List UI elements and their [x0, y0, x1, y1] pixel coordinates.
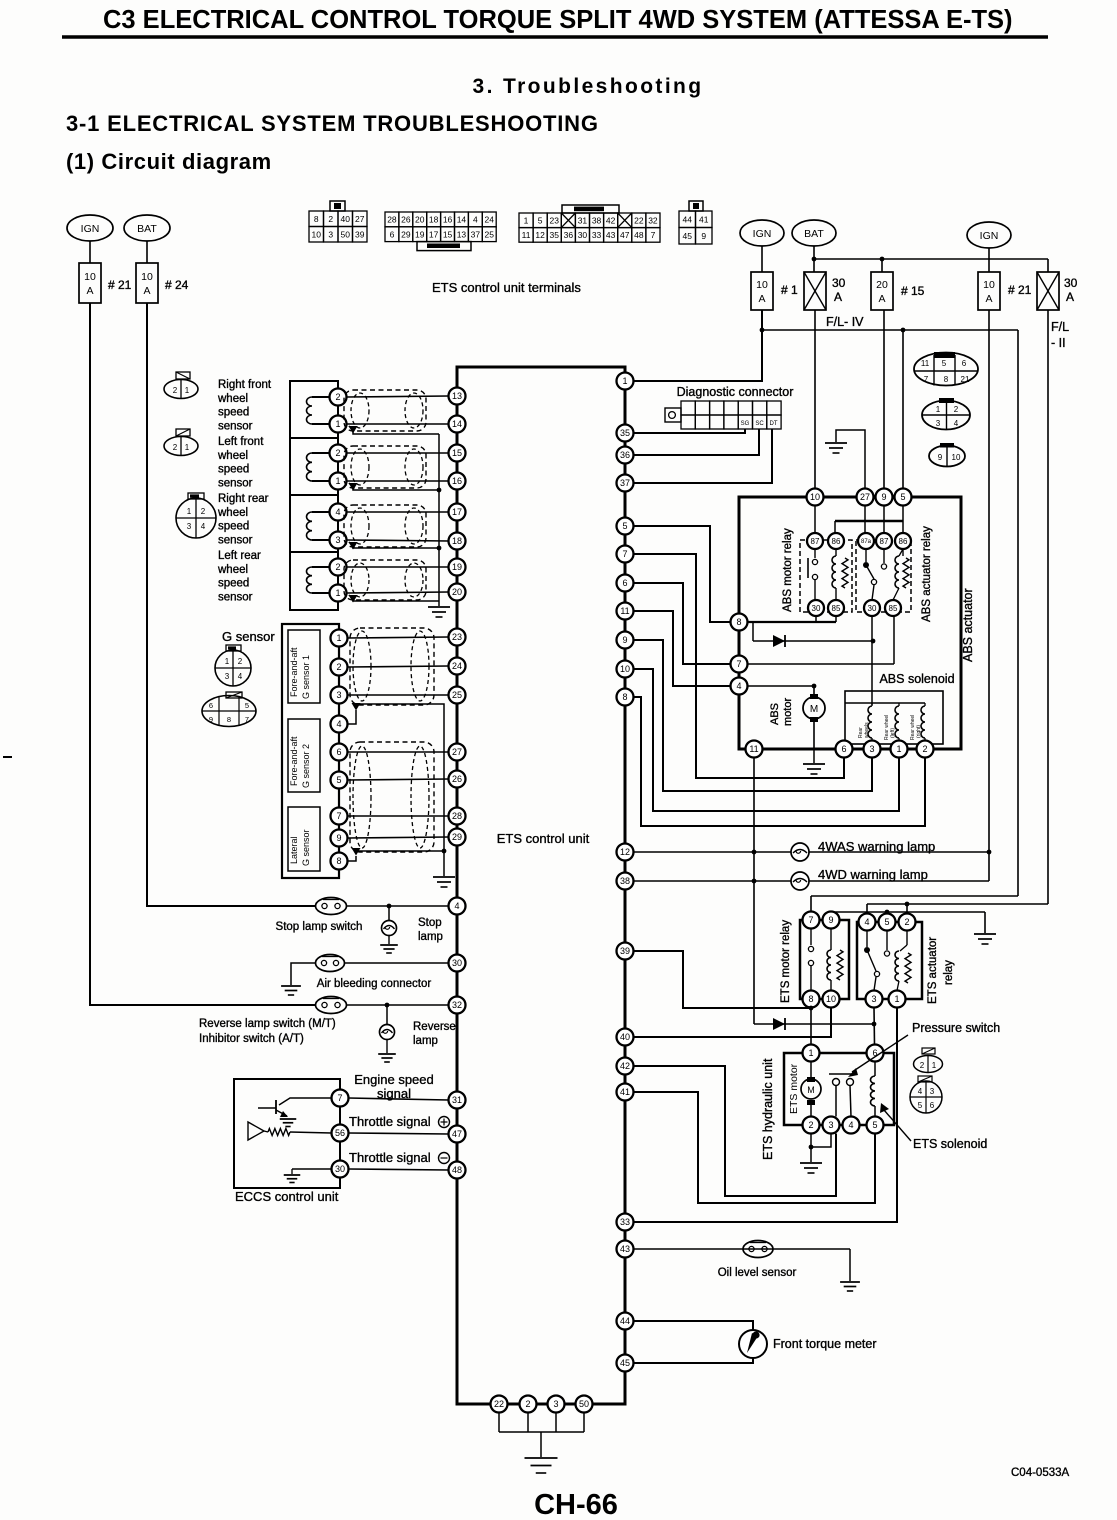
ETS solenoid coil	[874, 1062, 876, 1077]
ABS motor relay coil	[835, 549, 837, 556]
sensor divider 2	[290, 494, 338, 496]
wires ETS bottom terminals to ground bus	[498, 1413, 500, 1433]
svg-text:1: 1	[335, 476, 340, 486]
svg-text:2: 2	[238, 657, 243, 666]
svg-text:86: 86	[832, 537, 841, 546]
G sensor housing box	[282, 624, 339, 878]
wire ETS 10 to ABS solenoid 1	[634, 669, 900, 811]
accessory bus from fuse #1	[762, 329, 1018, 331]
G sensor connector icon 4-pin	[215, 650, 251, 686]
svg-text:C04-0533A: C04-0533A	[1011, 1467, 1070, 1479]
svg-text:Front torque meter: Front torque meter	[773, 1337, 877, 1351]
svg-text:30: 30	[812, 604, 821, 613]
svg-text:Throttle signal: Throttle signal	[349, 1114, 431, 1129]
svg-text:3: 3	[553, 1399, 558, 1409]
svg-text:27: 27	[860, 492, 870, 502]
svg-text:6: 6	[930, 1101, 935, 1110]
wire ETS 5 to ABS 8	[634, 526, 731, 622]
ETS terminal 27	[449, 744, 466, 761]
ABS solenoid coil rear wheel right	[924, 703, 926, 706]
wire fuse #21 down to warning lamps	[988, 310, 990, 881]
svg-text:4: 4	[473, 215, 478, 225]
ETS terminal 16	[449, 473, 466, 490]
ABS motor relay terminals	[807, 533, 823, 549]
wire ETS 38 to 4WD warning lamp	[634, 880, 990, 882]
wire stop lamp switch to ETS 4	[347, 905, 449, 907]
svg-text:# 1: # 1	[781, 283, 798, 297]
svg-text:30: 30	[578, 230, 588, 240]
wire F/L-IV down to ABS actuator terminal 10	[814, 310, 816, 489]
svg-text:6: 6	[336, 747, 341, 757]
ECCS pin 56	[332, 1125, 349, 1142]
ABS solenoid coil rear wheel left	[898, 703, 900, 706]
Fore-and-aft G sensor 1 box	[288, 630, 320, 703]
wire bus down right side to ETS motor relay	[1017, 330, 1019, 896]
svg-text:# 21: # 21	[1008, 283, 1032, 297]
svg-text:3: 3	[930, 1087, 935, 1096]
svg-text:11: 11	[921, 359, 930, 368]
connector icon 2-pin (9-10)	[929, 446, 965, 467]
svg-text:87: 87	[811, 537, 820, 546]
svg-text:12: 12	[620, 847, 630, 857]
pressure switch contacts	[829, 1073, 855, 1075]
wire ECCS 7 to ETS 31	[349, 1098, 449, 1100]
svg-text:37: 37	[471, 229, 481, 239]
wheel speed sensor housings	[290, 381, 338, 610]
svg-text:29: 29	[401, 229, 411, 239]
svg-text:45: 45	[620, 1358, 630, 1368]
svg-text:20: 20	[415, 215, 425, 225]
connector icon 6-pin (11-5-6/7-8-21)	[914, 353, 978, 386]
ETS actuator relay coil	[906, 931, 908, 946]
svg-text:ETS control unit terminals: ETS control unit terminals	[432, 280, 581, 295]
G sensor pins	[331, 630, 348, 647]
ETS terminal 25	[449, 687, 466, 704]
ETS terminal 6	[617, 575, 634, 592]
svg-text:17: 17	[452, 507, 462, 517]
power source BAT (right)	[792, 220, 836, 246]
svg-text:9: 9	[701, 231, 706, 241]
svg-text:speed: speed	[218, 407, 249, 419]
ETS terminal 43	[617, 1241, 634, 1258]
svg-text:39: 39	[620, 946, 630, 956]
svg-text:21: 21	[961, 375, 970, 384]
wire Right rear sensor pin 4 to ETS 17	[347, 511, 449, 513]
svg-text:8: 8	[336, 856, 341, 866]
svg-text:sensor: sensor	[218, 420, 253, 432]
svg-text:Diagnostic connector: Diagnostic connector	[677, 385, 794, 399]
wire BAT to fuse #24	[146, 241, 148, 263]
wire reverse lamp switch to ETS 32	[347, 1004, 449, 1006]
svg-text:40: 40	[620, 1032, 630, 1042]
reverse lamp ground	[386, 1040, 388, 1054]
svg-text:5: 5	[538, 216, 543, 226]
G shield drain tap 2	[352, 848, 361, 856]
power source IGN (right-1)	[740, 220, 784, 246]
ABS motor	[813, 686, 815, 697]
wire air bleeding connector to ground	[291, 963, 316, 985]
svg-text:ECCS control unit: ECCS control unit	[235, 1189, 339, 1204]
sensor divider 3	[290, 551, 338, 553]
ABS motor ground	[813, 749, 815, 763]
svg-text:5: 5	[336, 775, 341, 785]
svg-text:sensor: sensor	[218, 534, 253, 546]
svg-text:11: 11	[522, 230, 531, 240]
ETS terminal 44	[617, 1313, 634, 1330]
svg-text:44: 44	[620, 1316, 630, 1326]
ETS motor relay contact	[810, 929, 812, 946]
Right rear shielded cable	[344, 505, 426, 547]
ETS terminal 42	[617, 1058, 634, 1075]
ETS terminal 17	[449, 504, 466, 521]
wire ETS actuator relay 3 to hydraulic unit 6	[873, 1008, 876, 1045]
svg-text:11: 11	[620, 606, 629, 616]
power source IGN (right-2)	[967, 222, 1011, 248]
svg-text:4WAS warning lamp: 4WAS warning lamp	[818, 839, 935, 854]
svg-text:7: 7	[651, 230, 656, 240]
svg-text:- II: - II	[1051, 336, 1066, 350]
svg-text:C3 ELECTRICAL CONTROL TORQUE S: C3 ELECTRICAL CONTROL TORQUE SPLIT 4WD S…	[103, 6, 1013, 34]
svg-text:19: 19	[452, 562, 462, 572]
svg-text:29: 29	[452, 832, 462, 842]
fuse #21 right 10A	[978, 272, 1000, 310]
ETS terminal 7	[617, 546, 634, 563]
svg-text:2: 2	[336, 662, 341, 672]
4WAS warning lamp	[791, 843, 809, 861]
svg-text:5: 5	[884, 917, 889, 927]
svg-text:47: 47	[620, 230, 630, 240]
Left front shielded cable	[344, 446, 426, 488]
wire ABS terminal 8 to relay 30/85	[748, 621, 837, 623]
ETS terminal 30	[449, 955, 466, 972]
ETS terminal 23	[449, 629, 466, 646]
svg-text:Pressure switch: Pressure switch	[912, 1021, 1000, 1035]
ground for wheel sensor shields	[428, 606, 450, 608]
svg-text:43: 43	[620, 1244, 630, 1254]
svg-text:5: 5	[918, 1101, 923, 1110]
wire fuse #21 down to reverse lamp switch row	[90, 303, 316, 1005]
svg-text:36: 36	[620, 450, 630, 460]
wire ETS 6 to ABS 7	[634, 583, 731, 664]
svg-text:7: 7	[336, 811, 341, 821]
ETS terminal 13	[449, 388, 466, 405]
svg-text:2: 2	[920, 1061, 925, 1070]
svg-text:ABS solenoid: ABS solenoid	[879, 672, 954, 686]
G sensor shield ground	[443, 851, 445, 876]
svg-text:41: 41	[699, 214, 709, 224]
ETS terminal 41	[617, 1084, 634, 1101]
Lateral G sensor box	[288, 807, 320, 871]
svg-text:speed: speed	[218, 521, 249, 533]
power source IGN (left)	[67, 215, 113, 241]
wire ETS 45 to torque meter	[634, 1358, 754, 1363]
diode between ABS 8 bus and actuator relay 30	[752, 622, 754, 641]
svg-text:lamp: lamp	[418, 931, 443, 943]
svg-text:ETS motor: ETS motor	[788, 1063, 800, 1114]
svg-text:M: M	[810, 704, 818, 715]
ETS terminal 37	[617, 475, 634, 492]
ETS motor relay coil	[830, 929, 832, 951]
svg-text:27: 27	[452, 747, 462, 757]
ETS terminal 31	[449, 1092, 466, 1109]
svg-text:1: 1	[936, 405, 941, 414]
connector icon left front sensor	[164, 437, 198, 456]
svg-text:26: 26	[401, 215, 411, 225]
svg-text:26: 26	[452, 774, 462, 784]
svg-text:10: 10	[141, 271, 153, 283]
wire Right rear sensor pin 3 to ETS 18	[347, 540, 449, 541]
svg-text:ETS actuator: ETS actuator	[927, 937, 939, 1004]
svg-text:2: 2	[954, 405, 959, 414]
svg-text:6: 6	[841, 744, 846, 754]
svg-text:CH-66: CH-66	[534, 1489, 618, 1520]
svg-text:16: 16	[443, 215, 453, 225]
svg-text:# 15: # 15	[901, 284, 925, 298]
svg-text:4: 4	[864, 917, 869, 927]
svg-text:4: 4	[954, 419, 959, 428]
ETS terminal 39	[617, 943, 634, 960]
svg-text:relay: relay	[943, 960, 955, 985]
svg-text:25: 25	[485, 229, 495, 239]
ETS terminal 48	[449, 1162, 466, 1179]
svg-text:2: 2	[173, 443, 178, 452]
svg-text:wheel: wheel	[217, 564, 248, 576]
svg-text:50: 50	[579, 1399, 589, 1409]
connector icon right front sensor	[164, 380, 198, 399]
ETS hydraulic unit box	[784, 1053, 894, 1125]
ABS actuator relay contact	[865, 549, 867, 562]
svg-text:39: 39	[355, 229, 365, 239]
oil level sensor	[743, 1241, 773, 1258]
ETS terminal 4	[449, 898, 466, 915]
svg-text:speed: speed	[218, 578, 249, 590]
svg-text:19: 19	[415, 229, 425, 239]
svg-text:8: 8	[808, 994, 813, 1004]
svg-text:87: 87	[880, 537, 889, 546]
svg-text:Left rear: Left rear	[218, 550, 261, 562]
wire ETS 44 to torque meter	[634, 1321, 754, 1330]
svg-text:16: 16	[452, 476, 462, 486]
wire ETS 8 to ABS solenoid 2	[634, 697, 926, 826]
wire bus to fuse #15	[881, 259, 883, 272]
svg-text:3: 3	[335, 535, 340, 545]
svg-text:14: 14	[457, 215, 467, 225]
svg-text:45: 45	[683, 231, 693, 241]
Left front shield drain tap	[349, 483, 358, 491]
svg-text:48: 48	[634, 230, 644, 240]
fusible link F/L-II 30A	[1037, 272, 1059, 310]
svg-text:33: 33	[620, 1217, 630, 1227]
stray margin dash	[3, 756, 12, 758]
svg-text:50: 50	[341, 229, 351, 239]
wire actuator relay 30 down to ABS solenoid	[871, 616, 873, 641]
svg-text:7: 7	[245, 715, 249, 724]
svg-text:31: 31	[452, 1095, 462, 1105]
ETS terminal 35	[617, 425, 634, 442]
svg-text:(right): (right)	[916, 725, 922, 738]
ETS terminal 14	[449, 416, 466, 433]
ABS solenoid box	[845, 691, 943, 744]
svg-text:2: 2	[335, 448, 340, 458]
svg-text:2: 2	[328, 214, 333, 224]
ETS terminal 26	[449, 771, 466, 788]
svg-text:Stop: Stop	[418, 917, 442, 929]
fuse #21 10A	[79, 263, 101, 303]
svg-text:3: 3	[225, 672, 230, 681]
wire ABS terminal 5 to relay 86 bus	[902, 506, 904, 534]
svg-text:10: 10	[620, 664, 630, 674]
svg-text:9: 9	[622, 635, 627, 645]
svg-text:A: A	[834, 290, 842, 304]
svg-text:1: 1	[225, 657, 230, 666]
svg-text:87a: 87a	[861, 539, 872, 545]
svg-text:27: 27	[355, 214, 365, 224]
ground from ABS terminal 27	[836, 430, 865, 489]
svg-text:30: 30	[1064, 276, 1078, 290]
wire IGN to fuse #1	[761, 246, 763, 272]
svg-text:ABS actuator: ABS actuator	[961, 588, 975, 662]
svg-text:14: 14	[452, 419, 462, 429]
svg-text:wheel: wheel	[217, 393, 248, 405]
wire ETS motor relay 8 to hydraulic unit 1	[810, 1008, 812, 1045]
ECCS pin 7	[332, 1090, 349, 1107]
svg-text:18: 18	[452, 536, 462, 546]
ground near ETS relays	[974, 933, 996, 935]
svg-text:25: 25	[452, 690, 462, 700]
svg-text:ETS control unit: ETS control unit	[497, 831, 590, 846]
wire ETS relay 9 to ground	[831, 911, 985, 913]
svg-text:(1) Circuit diagram: (1) Circuit diagram	[66, 149, 272, 174]
Right front shielded cable	[344, 390, 426, 431]
ECCS buffer triangle	[248, 1122, 264, 1140]
svg-text:85: 85	[889, 604, 898, 613]
ECCS resistor	[268, 1129, 290, 1136]
svg-text:Left front: Left front	[218, 436, 264, 448]
svg-text:22: 22	[494, 1399, 504, 1409]
svg-text:4: 4	[336, 719, 341, 729]
wire ABS terminal 10 to relay 87	[814, 506, 816, 534]
wire bus to fusible link F/L-II	[1047, 259, 1049, 272]
svg-text:F/L- IV: F/L- IV	[826, 315, 864, 329]
ABS solenoid bus	[845, 702, 925, 704]
svg-text:30: 30	[832, 276, 846, 290]
wire bus down to ABS actuator terminal 5	[902, 330, 904, 489]
Right rear shield drain tap	[349, 542, 358, 550]
ETS motor relay terminals	[803, 912, 820, 929]
svg-text:Inhibitor switch (A/T): Inhibitor switch (A/T)	[199, 1033, 304, 1045]
svg-text:Reverse: Reverse	[413, 1021, 456, 1033]
svg-text:35: 35	[550, 230, 560, 240]
wire ABS terminal 9 to relay 87b	[883, 506, 885, 534]
connector block CN-B lower tab	[417, 242, 471, 251]
wire Left rear sensor pin 1 to ETS 20	[347, 592, 449, 593]
svg-text:15: 15	[452, 448, 462, 458]
svg-text:ABS actuator relay: ABS actuator relay	[921, 526, 933, 622]
reverse lamp switch	[316, 997, 347, 1014]
svg-text:47: 47	[452, 1129, 462, 1139]
svg-text:Lateral: Lateral	[289, 836, 299, 864]
ETS terminal 3	[548, 1396, 565, 1413]
stop lamp switch	[316, 898, 347, 915]
svg-text:38: 38	[592, 216, 602, 226]
svg-text:A: A	[985, 293, 992, 305]
svg-text:42: 42	[606, 216, 616, 226]
Right rear wheel speed sensor coil	[312, 511, 330, 513]
svg-text:38: 38	[620, 876, 630, 886]
svg-text:4WD warning lamp: 4WD warning lamp	[818, 867, 928, 882]
svg-text:1: 1	[185, 386, 190, 395]
svg-text:G sensor 1: G sensor 1	[301, 655, 311, 699]
svg-text:F/L: F/L	[1051, 320, 1069, 334]
wire ETS 11 to ABS 4	[634, 611, 731, 686]
svg-text:sensor: sensor	[218, 591, 253, 603]
ECCS pin 30	[332, 1161, 349, 1178]
svg-text:SG: SG	[741, 421, 750, 427]
wire ETS 33 to ETS actuator relay 1	[634, 1008, 898, 1223]
ETS terminal 24	[449, 658, 466, 675]
wire G pin 5 to ETS 26	[348, 779, 449, 780]
svg-text:# 24: # 24	[165, 278, 189, 292]
svg-text:17: 17	[429, 229, 439, 239]
svg-text:7: 7	[337, 1093, 342, 1103]
svg-text:2: 2	[904, 917, 909, 927]
diagnostic connector latch	[665, 408, 681, 422]
ECCS transistor ground	[280, 1118, 297, 1120]
svg-text:30: 30	[452, 958, 462, 968]
ETS solenoid connector icon	[910, 1081, 942, 1113]
front torque meter	[739, 1330, 767, 1358]
svg-text:10: 10	[312, 229, 322, 239]
svg-text:3: 3	[869, 744, 874, 754]
Left front wheel speed sensor coil	[312, 452, 330, 454]
svg-text:30: 30	[335, 1164, 345, 1174]
connector block CN-B (28..24 / 6..25)	[385, 212, 399, 227]
oil level sensor ground	[849, 1249, 851, 1281]
ABS actuator relay NC stub	[883, 549, 885, 563]
ABS motor relay contact	[814, 549, 816, 558]
svg-text:28: 28	[387, 215, 397, 225]
connector block CN-C (1..32 / 11..7)	[519, 213, 533, 228]
ECCS pin30 internal ground	[292, 1168, 332, 1170]
wire fuse #15 down to ABS actuator terminal 9	[883, 310, 885, 489]
svg-text:48: 48	[452, 1165, 462, 1175]
ABS actuator edge terminals	[807, 489, 824, 506]
ETS terminal 11	[617, 603, 634, 620]
wire Left front sensor pin 1 to ETS 16	[347, 480, 449, 482]
connector icon 4-pin (1-2/3-4)	[922, 401, 970, 430]
ABS solenoid coil rear wheels	[871, 703, 873, 706]
svg-text:7: 7	[622, 549, 627, 559]
svg-text:IGN: IGN	[81, 223, 100, 235]
diagnostic connector body	[681, 401, 695, 415]
svg-text:speed: speed	[218, 464, 249, 476]
svg-text:motor: motor	[782, 698, 794, 726]
ETS terminal 22	[491, 1396, 508, 1413]
svg-text:8: 8	[314, 214, 319, 224]
svg-text:2: 2	[922, 744, 927, 754]
4WD warning lamp	[791, 872, 809, 890]
wire air bleeding connector to ETS 30	[345, 962, 449, 964]
svg-text:Throttle signal: Throttle signal	[349, 1150, 431, 1165]
wire F/L-II down to ETS actuator relay	[1047, 310, 1049, 904]
wire ETS 7 to ABS 6	[634, 554, 845, 778]
svg-text:Right front: Right front	[218, 379, 272, 391]
svg-text:3: 3	[828, 1120, 833, 1130]
ABS actuator box	[739, 497, 961, 749]
svg-text:7: 7	[924, 375, 929, 384]
svg-text:41: 41	[620, 1087, 630, 1097]
svg-text:86: 86	[899, 537, 908, 546]
